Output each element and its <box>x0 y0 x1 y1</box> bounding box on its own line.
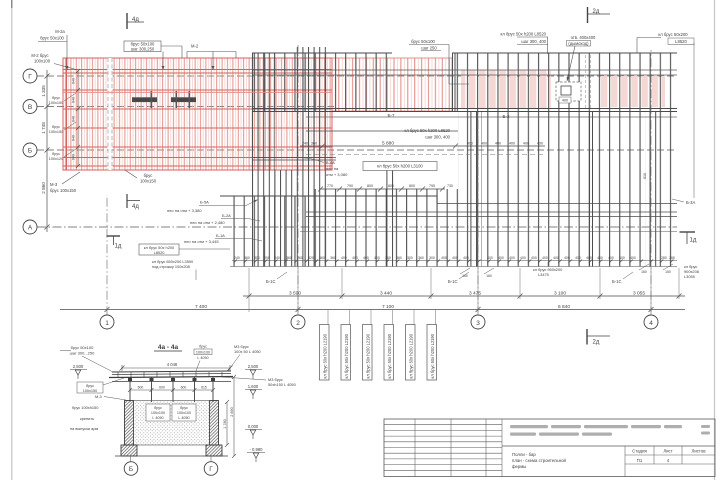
elevation flag 1,600 <box>245 384 262 399</box>
svg-text:400: 400 <box>564 256 570 260</box>
svg-text:100х100: 100х100 <box>34 59 51 64</box>
svg-text:150: 150 <box>665 270 671 274</box>
svg-text:600: 600 <box>181 386 187 390</box>
section label брус 100х100 L4050 top boxed <box>194 345 212 372</box>
stage table <box>625 446 715 477</box>
svg-text:100х100: 100х100 <box>177 411 191 415</box>
dimension row 7400/7100/6840 <box>60 307 685 312</box>
svg-text:360: 360 <box>385 256 391 260</box>
svg-text:280: 280 <box>661 256 667 260</box>
dark text block 200х200х100 group 1 <box>132 91 157 108</box>
title text Полли-бар <box>512 452 567 469</box>
svg-text:кл брус 50х h200 L2190: кл брус 50х h200 L2190 <box>323 333 328 378</box>
title block main divider <box>502 445 715 447</box>
leaders to vertical label boxes <box>328 310 436 325</box>
pier pair mid-left <box>386 162 394 267</box>
svg-text:Б-2А: Б-2А <box>222 213 231 218</box>
section axis circle Б <box>124 456 138 475</box>
svg-text:4д: 4д <box>132 17 139 23</box>
svg-text:400: 400 <box>619 256 625 260</box>
small dims near pier bottoms <box>462 270 671 278</box>
lower band beam lines <box>306 130 458 132</box>
svg-text:брус: брус <box>199 345 207 349</box>
svg-text:360: 360 <box>330 256 336 260</box>
label кл брус 900х200 L3055 right bottom <box>684 264 699 279</box>
svg-text:кл брус 50х h200 L3100: кл брус 50х h200 L3100 <box>377 164 423 169</box>
dimension row 5880 (upper) <box>300 144 545 149</box>
axis Г dashed line <box>37 75 677 77</box>
section axis circle Г <box>204 456 218 475</box>
svg-text:кл брус 50х h200 L2190: кл брус 50х h200 L2190 <box>366 333 371 378</box>
svg-text:брус: брус <box>86 384 94 388</box>
svg-text:М-3: М-3 <box>50 182 58 187</box>
svg-text:кл брус 50х h200 L8520: кл брус 50х h200 L8520 <box>404 128 450 133</box>
ground line under bases <box>115 455 228 457</box>
svg-text:2 690: 2 690 <box>230 407 234 417</box>
svg-text:1 335: 1 335 <box>41 85 46 97</box>
red block thick left edge <box>66 58 68 170</box>
section dim 4046 <box>120 365 233 371</box>
svg-text:4: 4 <box>649 320 653 327</box>
page frame right edge <box>714 0 716 480</box>
svg-text:1д: 1д <box>690 238 697 244</box>
svg-text:160: 160 <box>486 274 492 278</box>
section marker 4д top <box>127 13 144 29</box>
svg-text:5 880: 5 880 <box>382 141 394 147</box>
upper joist band red thin hatch extension <box>332 58 452 111</box>
svg-text:400: 400 <box>509 142 515 146</box>
svg-text:шаг 250: шаг 250 <box>421 45 437 50</box>
svg-text:Б-5А: Б-5А <box>200 200 209 205</box>
svg-text:400: 400 <box>498 256 504 260</box>
svg-text:4д: 4д <box>132 204 139 210</box>
svg-text:400: 400 <box>467 142 473 146</box>
vertical label box 5 <box>406 325 416 381</box>
svg-text:Полли - бар: Полли - бар <box>512 452 536 457</box>
svg-text:Б-4А: Б-4А <box>326 160 335 165</box>
label кл брус 650х200 L3590 под строжку <box>152 259 196 280</box>
svg-text:400: 400 <box>352 256 358 260</box>
svg-text:600: 600 <box>159 386 165 390</box>
svg-text:400: 400 <box>537 142 543 146</box>
svg-text:брус 100хh150: брус 100хh150 <box>72 405 99 410</box>
svg-text:400: 400 <box>509 256 515 260</box>
svg-text:Б-7: Б-7 <box>387 113 395 118</box>
section title 4а - 4а <box>154 344 182 351</box>
svg-text:нео на отм + 3,380: нео на отм + 3,380 <box>167 208 202 213</box>
axis 3 centerline <box>477 112 479 315</box>
section label М-3 крепить <box>70 394 126 431</box>
svg-text:3 475: 3 475 <box>469 290 481 296</box>
svg-text:400: 400 <box>452 256 458 260</box>
svg-text:брус: брус <box>144 173 153 178</box>
dark beam pair right of red block <box>252 158 336 161</box>
bottom axis circle 4 <box>644 315 658 329</box>
svg-text:300: 300 <box>254 256 260 260</box>
svg-text:брус 50х100: брус 50х100 <box>411 39 435 44</box>
label кл брус 50х h200 L8520 (left low, boxed) <box>139 244 230 255</box>
svg-text:1д: 1д <box>115 244 122 250</box>
svg-text:640: 640 <box>72 97 76 103</box>
extra red horizontal pair line <box>63 91 332 93</box>
svg-text:шаг 300, 400: шаг 300, 400 <box>521 39 546 44</box>
axis А dash-dot line <box>37 226 677 228</box>
vertical label box 6 <box>427 325 437 381</box>
svg-text:640: 640 <box>72 154 76 160</box>
axis 4 centerline <box>650 50 652 315</box>
svg-text:2 860: 2 860 <box>41 182 46 194</box>
svg-text:640: 640 <box>72 78 76 84</box>
right vertical dims of pit <box>225 375 236 458</box>
svg-text:265: 265 <box>669 256 675 260</box>
svg-text:2,500: 2,500 <box>248 364 259 369</box>
svg-text:100х150: 100х150 <box>83 389 98 393</box>
svg-text:100х150: 100х150 <box>140 179 157 184</box>
axis circle А <box>23 220 37 234</box>
boxed label брус 50х100 шаг 300,250 <box>124 41 182 70</box>
svg-text:нео на: нео на <box>326 166 339 171</box>
svg-text:360: 360 <box>396 256 402 260</box>
label кл брус 50х h200 L8520 шаг 300,400 (mid) <box>404 128 450 140</box>
label М-2 mid <box>187 44 236 71</box>
elevation flag 2,500 right <box>245 364 262 379</box>
svg-text:L 4050: L 4050 <box>178 416 189 420</box>
svg-text:3 440: 3 440 <box>380 290 392 296</box>
svg-text:брус 50х100: брус 50х100 <box>40 36 64 41</box>
label Б-4А нео на отм +3,080 <box>304 158 348 177</box>
flue dashed verticals <box>585 55 587 110</box>
dimension row 3590/3440/3475/3100/3055 <box>243 294 685 299</box>
svg-text:400: 400 <box>341 256 347 260</box>
pier cluster right (axis 4) <box>645 112 657 267</box>
axis Б dashed line <box>37 149 677 151</box>
pit inner label boxes <box>146 404 196 421</box>
base block right <box>206 445 222 456</box>
pink wide strips right band <box>601 76 665 107</box>
svg-text:L3055: L3055 <box>684 274 695 279</box>
svg-text:L8520: L8520 <box>154 250 166 255</box>
upper band beam lines <box>252 69 677 71</box>
vertical label box 1 <box>320 325 330 381</box>
svg-text:(дымоход): (дымоход) <box>568 41 589 46</box>
dense joist cluster second pier <box>295 47 327 267</box>
svg-text:360: 360 <box>311 142 317 146</box>
label М-2а брус 50х100 <box>38 29 69 70</box>
dashed beam line Б-4А <box>306 154 545 156</box>
upper band bottom chords <box>252 108 677 110</box>
svg-text:Листов: Листов <box>692 449 707 454</box>
svg-text:730: 730 <box>447 184 453 188</box>
svg-text:100х100: 100х100 <box>49 101 64 105</box>
svg-text:1 748: 1 748 <box>41 122 46 134</box>
svg-text:800: 800 <box>409 184 415 188</box>
lower band left short joists under cluster <box>230 196 306 267</box>
section roof slab <box>109 371 233 382</box>
svg-text:Б: Б <box>129 466 133 473</box>
small left labels брус 100х100 <box>49 96 64 161</box>
section label брус 100х150 boxed <box>77 378 124 393</box>
vertical label box 2 <box>341 325 351 381</box>
svg-text:3 100: 3 100 <box>554 290 566 296</box>
svg-text:брус 100х150: брус 100х150 <box>50 188 77 193</box>
svg-text:фермы: фермы <box>512 464 526 469</box>
svg-text:М-2 брус: М-2 брус <box>31 53 48 58</box>
svg-text:П1: П1 <box>637 458 643 463</box>
svg-text:2: 2 <box>296 320 300 327</box>
svg-text:Лист: Лист <box>663 449 672 454</box>
svg-text:брус: брус <box>52 125 60 129</box>
svg-text:810: 810 <box>643 173 647 179</box>
svg-text:кл брус 50х h200 L2190: кл брус 50х h200 L2190 <box>387 333 392 378</box>
svg-text:400: 400 <box>542 256 548 260</box>
vertical label box 3 <box>363 325 373 381</box>
chimney opening 400x400 <box>556 82 581 103</box>
svg-text:360: 360 <box>418 256 424 260</box>
label брус 100х150 below red block <box>125 170 157 184</box>
svg-text:3 590: 3 590 <box>289 290 301 296</box>
svg-text:М-2а: М-2а <box>55 29 65 34</box>
svg-text:брус: брус <box>180 406 188 410</box>
base block left <box>121 445 137 456</box>
svg-text:2д: 2д <box>593 340 600 346</box>
svg-text:770: 770 <box>327 184 333 188</box>
roof deck small verticals <box>118 372 222 377</box>
section label М3 брус right <box>222 377 297 387</box>
svg-text:брус: брус <box>52 96 60 100</box>
svg-text:В: В <box>28 104 32 111</box>
svg-text:шаг 300, 400: шаг 300, 400 <box>425 135 450 140</box>
svg-text:400: 400 <box>374 256 380 260</box>
upper joist band verticals (left) <box>252 53 390 111</box>
leftside small dim column with ticks <box>76 69 80 168</box>
svg-text:6 840: 6 840 <box>558 304 570 310</box>
svg-text:400: 400 <box>608 256 614 260</box>
label кл брус 950х200 L3475 <box>533 262 563 277</box>
svg-text:240: 240 <box>234 256 240 260</box>
pier cluster mid (axis 3) <box>470 112 482 267</box>
svg-text:L 4050: L 4050 <box>197 356 208 360</box>
svg-text:шаг 300,250: шаг 300,250 <box>131 47 155 52</box>
title block outer frame <box>384 419 715 477</box>
doubled joist pair lower band <box>589 112 591 267</box>
red hatched block (left wing plan) <box>63 58 332 170</box>
svg-text:360: 360 <box>286 256 292 260</box>
svg-text:300: 300 <box>407 256 413 260</box>
label кл брус 50х h200 L8520 шаг 300 400 (top) <box>500 32 548 55</box>
labels Б-1С bottom <box>266 272 633 284</box>
section marker 2д top <box>588 7 611 23</box>
post spacing dimension row <box>128 388 215 392</box>
svg-text:7 400: 7 400 <box>195 304 207 310</box>
svg-text:3 055: 3 055 <box>633 290 645 296</box>
left vertical dimension chain <box>45 70 50 232</box>
label кл брус 50х200 L8520 (top right) <box>637 32 694 53</box>
svg-text:400: 400 <box>597 256 603 260</box>
dimension row 770..730 (mid left) <box>318 187 445 192</box>
axis circle В <box>23 100 37 114</box>
vertical label box 4 <box>384 325 394 381</box>
upper joist band verticals (right) <box>455 53 677 111</box>
svg-text:160: 160 <box>641 270 647 274</box>
red beam lines horizontal <box>63 70 332 167</box>
pit stippled fill <box>134 401 210 446</box>
dense joists between clusters below red block <box>274 170 295 267</box>
axis 2 centerline up through plan <box>297 45 299 315</box>
svg-text:кл брус 50х h200 L2190: кл брус 50х h200 L2190 <box>344 333 349 378</box>
left pier hatched <box>125 401 134 446</box>
svg-text:кл брус 50х h200 L8520: кл брус 50х h200 L8520 <box>500 32 546 37</box>
svg-text:L3475: L3475 <box>538 272 549 277</box>
svg-text:Стадия: Стадия <box>632 449 647 454</box>
svg-text:600: 600 <box>138 386 144 390</box>
darker stub top-left <box>11 0 13 8</box>
svg-text:400: 400 <box>553 256 559 260</box>
svg-text:400: 400 <box>523 142 529 146</box>
svg-text:400: 400 <box>463 256 469 260</box>
section marker 1д right <box>680 232 697 244</box>
svg-text:615: 615 <box>201 386 207 390</box>
label Б-5А нео на отм +3,380 <box>167 200 258 214</box>
band boundary pair at x452 <box>452 53 454 111</box>
svg-text:кл брус 50х h200 L2190: кл брус 50х h200 L2190 <box>430 333 435 378</box>
blurred code top-right <box>701 425 710 435</box>
section label брус 50х100 шаг 300..250 <box>60 345 113 372</box>
svg-text:шаг 300...250: шаг 300...250 <box>70 351 95 356</box>
elevation flag -0,980 <box>247 447 265 462</box>
svg-text:Б-3А: Б-3А <box>686 200 695 205</box>
svg-text:300: 300 <box>429 256 435 260</box>
svg-text:план - схема строительной: план - схема строительной <box>512 458 567 463</box>
right edge extension line <box>693 43 695 198</box>
svg-text:400: 400 <box>531 256 537 260</box>
svg-text:400: 400 <box>481 142 487 146</box>
svg-text:400: 400 <box>562 99 568 103</box>
section label М3 брус 100х50 L4050 <box>228 344 262 371</box>
section marker 2д bottom <box>587 329 610 346</box>
svg-text:800: 800 <box>388 184 394 188</box>
svg-text:400: 400 <box>520 256 526 260</box>
elevation flag 2,500 left <box>70 364 87 379</box>
white gap strip with dashed edges in red block <box>108 58 113 170</box>
dark text block 200х200х100 group 2 <box>171 91 196 108</box>
svg-text:брус: брус <box>154 406 162 410</box>
section posts with bolts <box>130 377 213 402</box>
svg-text:360: 360 <box>319 256 325 260</box>
svg-text:50хh150 L 4050: 50хh150 L 4050 <box>268 382 297 387</box>
svg-text:М-2: М-2 <box>191 44 199 49</box>
svg-text:А: А <box>28 224 33 231</box>
axis circle Г <box>23 69 37 83</box>
svg-text:брус 50х100: брус 50х100 <box>71 345 94 350</box>
svg-text:240: 240 <box>274 256 280 260</box>
boxed label кл брус 50х h200 L3100 <box>363 162 437 171</box>
svg-text:Б-1А: Б-1А <box>216 233 225 238</box>
svg-text:4а - 4а: 4а - 4а <box>158 344 179 351</box>
label Б-1А отм +3,445 <box>184 233 262 244</box>
svg-text:брус: брус <box>52 152 60 156</box>
lower band joists right part <box>458 112 677 267</box>
svg-text:- 0,980: - 0,980 <box>249 447 263 452</box>
svg-text:крепить: крепить <box>80 416 94 421</box>
leftside small rotated dims 640 <box>72 78 76 160</box>
dense joist cluster left pier <box>252 53 275 267</box>
svg-text:Б-2: Б-2 <box>502 114 510 119</box>
svg-text:360: 360 <box>244 256 250 260</box>
svg-text:320: 320 <box>308 256 314 260</box>
svg-text:отм + 3,080: отм + 3,080 <box>326 172 348 177</box>
svg-text:под строжку 100х208: под строжку 100х208 <box>152 264 190 269</box>
svg-text:Б: Б <box>28 147 32 154</box>
svg-text:100х 50 L 4050: 100х 50 L 4050 <box>234 349 262 354</box>
right pier hatched <box>210 401 219 446</box>
axis circle Б <box>23 143 37 157</box>
extension lines to dimension rows <box>106 195 108 315</box>
svg-text:отв. 400х400: отв. 400х400 <box>571 35 596 40</box>
red block border <box>63 58 332 170</box>
upper band top chord <box>252 52 392 54</box>
svg-text:нео на отм + 2,480: нео на отм + 2,480 <box>190 220 225 225</box>
svg-text:Б-1С: Б-1С <box>266 279 276 284</box>
svg-text:240: 240 <box>302 142 308 146</box>
svg-text:640: 640 <box>72 116 76 122</box>
svg-text:1,600: 1,600 <box>248 384 259 389</box>
svg-text:400: 400 <box>441 256 447 260</box>
svg-text:Г: Г <box>209 466 213 473</box>
svg-text:L 4050: L 4050 <box>152 416 163 420</box>
pink wide strips mid band <box>461 70 551 108</box>
label М-2 брус 100х100 left <box>31 53 78 70</box>
page frame left edge <box>11 0 13 480</box>
svg-text:400: 400 <box>363 256 369 260</box>
svg-text:640: 640 <box>72 135 76 141</box>
label отв 400х400 дымоход <box>567 35 597 81</box>
lower band joists left-mid part <box>306 189 458 267</box>
svg-text:Г: Г <box>28 73 32 80</box>
bottom axis circle 1 <box>100 315 114 329</box>
bottom axis circle 3 <box>471 315 485 329</box>
svg-text:7 100: 7 100 <box>382 304 394 310</box>
svg-text:400: 400 <box>487 256 493 260</box>
svg-text:1: 1 <box>105 320 109 327</box>
svg-text:2,500: 2,500 <box>73 364 84 369</box>
svg-text:100х120: 100х120 <box>49 157 64 161</box>
svg-text:100х100: 100х100 <box>151 411 165 415</box>
svg-text:800: 800 <box>367 184 373 188</box>
svg-text:1 780: 1 780 <box>223 419 227 429</box>
svg-text:400: 400 <box>630 256 636 260</box>
svg-text:400: 400 <box>575 256 581 260</box>
svg-text:L8520: L8520 <box>675 39 687 44</box>
bottom axis circle 2 <box>291 315 305 329</box>
label брус 50х100 шаг 250 (top mid, underlined) <box>409 39 469 84</box>
title block left grid <box>384 419 502 477</box>
svg-text:М-3: М-3 <box>95 394 102 399</box>
svg-text:400: 400 <box>586 256 592 260</box>
svg-text:400: 400 <box>495 142 501 146</box>
svg-text:100х100: 100х100 <box>196 350 210 354</box>
svg-text:Б-1С: Б-1С <box>612 279 622 284</box>
svg-text:Б-1С: Б-1С <box>448 279 458 284</box>
blurred project text <box>510 425 682 436</box>
svg-text:790: 790 <box>347 184 353 188</box>
svg-text:на выпуски арм: на выпуски арм <box>70 426 98 431</box>
label Б-2А нео на отм +2,480 <box>190 213 260 225</box>
svg-text:нео на отм + 3,445: нео на отм + 3,445 <box>184 239 219 244</box>
svg-text:4 046: 4 046 <box>167 362 178 367</box>
section marker 1д left <box>107 236 122 250</box>
label Б-3А right <box>672 199 695 205</box>
axis В dashed line <box>37 106 336 108</box>
